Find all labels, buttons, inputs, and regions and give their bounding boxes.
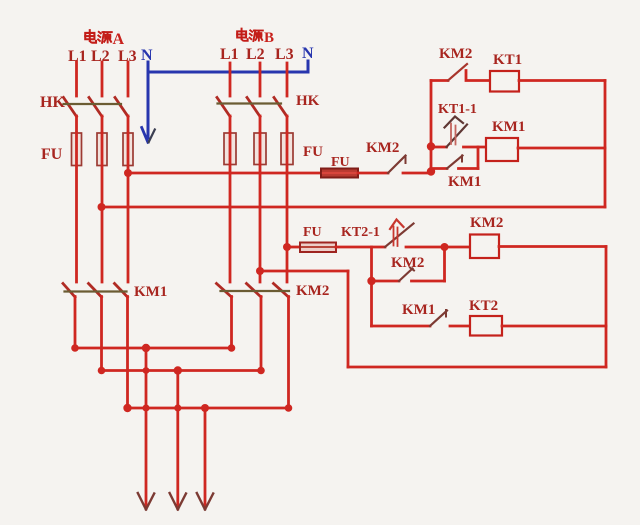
wire phase L1 A top [75, 62, 78, 96]
svg-text:A: A [113, 31, 125, 48]
coil KT1 [490, 71, 519, 92]
wire L2 A mid [101, 116, 104, 134]
wire L2 A through fuse down [101, 133, 104, 282]
coil KT2 [470, 316, 502, 336]
label source B 电源B [237, 29, 274, 46]
svg-text:L2: L2 [246, 46, 265, 63]
node bus L2 right [257, 367, 265, 375]
svg-text:KM2: KM2 [391, 255, 424, 271]
contact KT2-1 delay blade [385, 224, 414, 248]
feeder 1 arrow head [138, 493, 154, 510]
wire NC contact to node [403, 172, 431, 175]
node rung B tap on L3B [283, 243, 291, 251]
node bus L2 feeder tap [174, 366, 182, 374]
node return tap on L2A [98, 203, 106, 211]
wire feeder 1 [145, 348, 148, 507]
svg-text:FU: FU [331, 155, 350, 170]
wire after fuse B [336, 246, 385, 249]
fuse FU B1 [224, 133, 236, 165]
N arrow head [142, 128, 148, 143]
wire L3 A mid [127, 116, 130, 134]
wire KT2-1 to KM2 coil [406, 246, 470, 249]
wire left riser control A [430, 81, 433, 174]
switch HK (source A) blades [64, 98, 129, 117]
wire L3 B lower [287, 297, 290, 409]
node bus L3 feeder1 cross [142, 404, 149, 411]
node rung A tap on L3A [124, 169, 132, 177]
wire feeder 2 [176, 371, 179, 508]
fuse FU A2 [97, 133, 107, 166]
wire L1 B mid [229, 116, 232, 134]
svg-text:KM2: KM2 [296, 283, 329, 299]
wire L3 A lower [126, 297, 129, 409]
label source A 电源A [85, 30, 124, 48]
wire L3 A through fuse down [127, 133, 130, 282]
node aux riser tap [441, 243, 449, 251]
svg-text:L1: L1 [220, 46, 239, 63]
contact KM2 aux NO leads [372, 280, 445, 283]
svg-text:KT1-1: KT1-1 [438, 102, 477, 117]
wire L3 B through fuse down [286, 133, 289, 282]
svg-text:HK: HK [40, 94, 65, 111]
wire KT2 coil to rail B [502, 325, 606, 328]
wire L1 A lower [74, 297, 77, 349]
fuse FU B2 [254, 133, 266, 165]
contact KM1 NC blade (rung KT2) [430, 311, 447, 327]
svg-text:KM2: KM2 [439, 46, 472, 62]
fuse FU control B [300, 243, 336, 253]
coil KM1 [486, 138, 518, 161]
node KT1-1 tap [427, 142, 435, 150]
wire L1 B lower [230, 297, 233, 349]
wire return line A to L2 [102, 206, 606, 209]
svg-text:N: N [302, 45, 314, 62]
coil KM2 [470, 235, 499, 259]
contact KT1-1 blade [447, 125, 468, 148]
node bus L3 feeder2 cross [174, 404, 181, 411]
contact KT2-1 arrow shaft [394, 227, 398, 247]
switch HK (source A) linkage bar [64, 103, 122, 105]
contact KM1 NC tick (rung KT2) [445, 310, 447, 317]
node bus L3 right [285, 404, 293, 412]
svg-text:KT1: KT1 [493, 52, 522, 68]
contactor KM2 main blades [217, 284, 289, 298]
node bus L3 feeder tap [201, 404, 209, 412]
wire L3 B mid [286, 116, 289, 134]
switch HK (source B) linkage bar [218, 102, 282, 104]
node bus L2 feeder1 cross [143, 367, 150, 374]
svg-text:KM1: KM1 [134, 284, 167, 300]
node bus L1 right [228, 344, 236, 352]
wire riser to KM1 coil [477, 147, 480, 169]
wire phase L1 B top [229, 63, 232, 96]
svg-text:KM1: KM1 [402, 302, 435, 318]
wire L1 A through fuse down [75, 133, 78, 282]
wire KM1 coil to rail [518, 147, 605, 150]
wire bus L1 (A-B tie) [75, 347, 232, 350]
wire L2 A lower [100, 297, 103, 371]
svg-text:KM2: KM2 [366, 140, 399, 156]
wire bus L3 (A-B tie) [128, 407, 289, 410]
node bus L1 feeder tap [142, 344, 150, 352]
wire phase L2 B top [259, 63, 262, 96]
wire L2 B mid [259, 116, 262, 134]
svg-text:KT2: KT2 [469, 298, 498, 314]
wire after fuse A [358, 172, 388, 175]
wire right rail A [604, 81, 607, 208]
wire N blue bus [148, 61, 308, 138]
wire L2 B lower [260, 297, 263, 371]
svg-text:FU: FU [41, 146, 63, 163]
svg-text:L2: L2 [91, 48, 110, 65]
wire L1 B through fuse down [229, 133, 232, 282]
svg-text:FU: FU [303, 225, 322, 240]
wire bottom return B [348, 366, 606, 369]
contact KM2 aux NO blade [399, 269, 413, 282]
svg-text:L3: L3 [275, 46, 294, 63]
contactor KM2 linkage bar [221, 290, 290, 292]
wire phase L3 A top [127, 62, 130, 96]
svg-text:KT2-1: KT2-1 [341, 225, 380, 240]
node return tap on L2B [256, 267, 264, 275]
node bus L2 left [98, 367, 106, 375]
wire phase L3 B top [286, 63, 289, 96]
contact KM2 NO (top rung) [431, 79, 448, 82]
fuse FU control A [321, 169, 358, 178]
wire riser KM2 aux [443, 247, 446, 281]
svg-text:KM1: KM1 [448, 174, 481, 190]
node rung A junction [427, 167, 435, 175]
feeder 3 arrow head [197, 493, 213, 510]
switch HK (source B) blades [217, 98, 287, 117]
node bus L1 left [71, 344, 79, 352]
svg-text:FU: FU [303, 144, 323, 160]
wire L2 B through fuse down [259, 133, 262, 282]
contact KM1 NC (rung KT2) leads [372, 325, 471, 328]
wire right rail B [605, 247, 608, 368]
node bus L3 left [123, 404, 131, 412]
svg-text:KM1: KM1 [492, 119, 525, 135]
wire control rung B feed from L3B [287, 246, 300, 249]
contactor KM1 main blades [63, 284, 128, 298]
wire phase L2 A top [101, 62, 104, 96]
node KM2 aux tap [367, 277, 375, 285]
contact KT1-1 delay leads [431, 146, 486, 149]
contact KT1-1 arrow shaft [451, 124, 456, 145]
wire control rung A feed from L3 [128, 172, 321, 175]
wire bus L2 (A-B tie) [102, 369, 262, 372]
feeder 2 arrow head [170, 493, 186, 510]
svg-text:KM2: KM2 [470, 215, 503, 231]
wire KT1 coil to rail [519, 79, 605, 82]
contact KM2 NC tick [405, 156, 407, 163]
contactor KM1 linkage bar [65, 290, 127, 292]
wire left return riser B [347, 271, 350, 367]
wire return B to L2B [260, 270, 348, 273]
wire left riser control B [370, 247, 373, 326]
contact KM2 NC (in rung A) blade [388, 156, 406, 174]
contact KM1 NC (below KT1-1) leads [431, 167, 478, 170]
wire feeder 3 [204, 408, 207, 507]
contact KM1 NC tick [461, 156, 463, 162]
svg-text:B: B [264, 30, 274, 46]
contact KT2-1 arrow chevron [390, 220, 404, 230]
fuse FU A3 [123, 133, 133, 166]
contact KM1 NC blade [447, 156, 463, 169]
svg-text:HK: HK [296, 93, 320, 109]
wire L1 A mid [75, 116, 78, 134]
fuse FU B3 [281, 133, 293, 165]
contact KT1-1 arrow chevron [445, 117, 464, 128]
wire KM2 coil to rail B [499, 245, 606, 248]
fuse FU A1 [72, 133, 82, 166]
